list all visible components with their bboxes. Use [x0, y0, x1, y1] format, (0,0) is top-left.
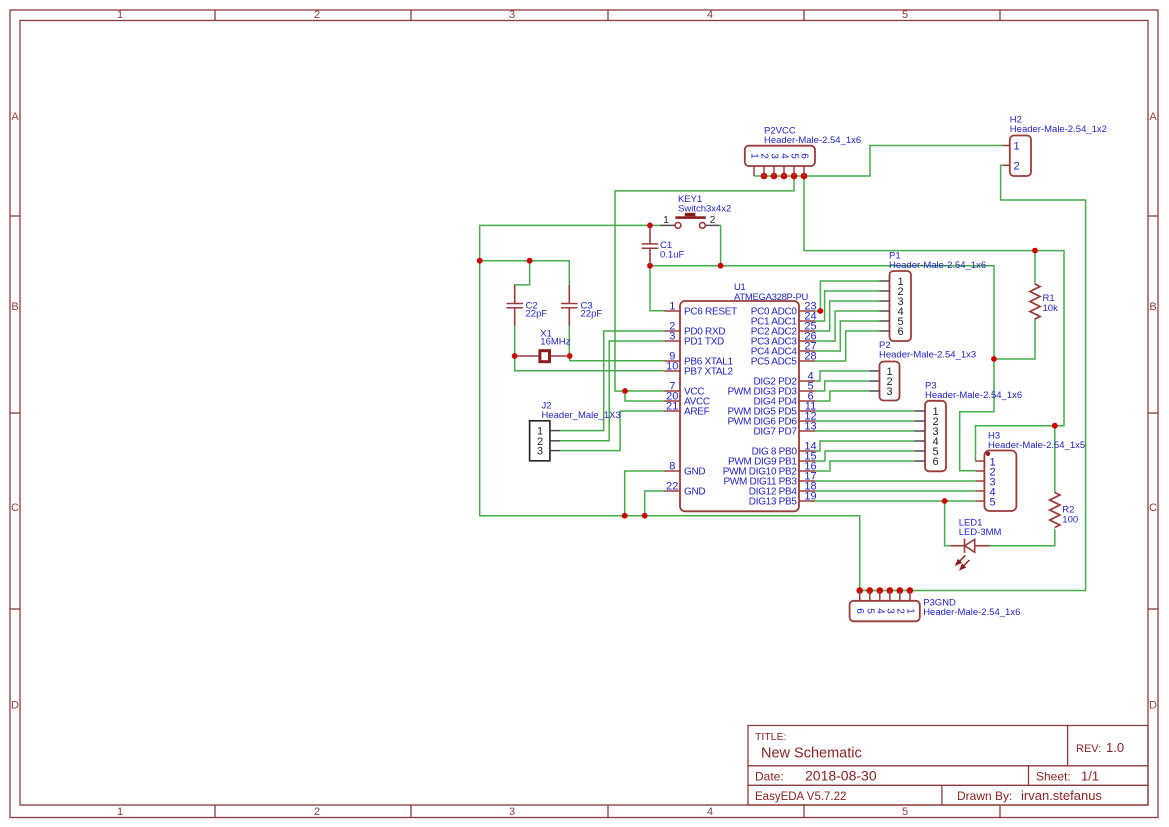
- svg-text:8: 8: [669, 460, 675, 472]
- svg-text:New Schematic: New Schematic: [761, 746, 862, 762]
- svg-text:13: 13: [804, 420, 816, 432]
- svg-text:PC5 ADC5: PC5 ADC5: [751, 357, 798, 368]
- svg-text:LED-3MM: LED-3MM: [959, 527, 1002, 538]
- svg-text:B: B: [1149, 301, 1156, 313]
- svg-text:EasyEDA V5.7.22: EasyEDA V5.7.22: [755, 791, 846, 803]
- svg-text:4: 4: [707, 9, 713, 21]
- svg-text:3: 3: [886, 386, 892, 398]
- svg-text:C: C: [1149, 502, 1157, 514]
- svg-text:2: 2: [759, 153, 770, 159]
- svg-text:5: 5: [902, 9, 908, 21]
- svg-text:AREF: AREF: [684, 407, 710, 418]
- svg-text:A: A: [11, 111, 19, 123]
- svg-text:Date:: Date:: [755, 770, 784, 784]
- svg-text:Header-Male-2.54_1x6: Header-Male-2.54_1x6: [889, 260, 986, 271]
- svg-text:Header-Male-2.54_1x6: Header-Male-2.54_1x6: [925, 390, 1022, 401]
- svg-text:Header-Male-2.54_1x6: Header-Male-2.54_1x6: [764, 135, 861, 146]
- svg-text:1: 1: [117, 9, 123, 21]
- svg-text:Switch3x4x2: Switch3x4x2: [678, 204, 731, 215]
- svg-text:6: 6: [932, 456, 938, 468]
- svg-text:GND: GND: [684, 467, 705, 478]
- svg-text:6: 6: [854, 608, 865, 614]
- svg-text:Drawn By:: Drawn By:: [957, 789, 1012, 803]
- svg-text:D: D: [11, 700, 19, 712]
- svg-text:irvan.stefanus: irvan.stefanus: [1021, 788, 1102, 803]
- svg-text:6: 6: [799, 153, 810, 159]
- svg-text:1: 1: [904, 608, 915, 614]
- svg-text:3: 3: [669, 330, 675, 342]
- svg-text:Header-Male-2.54_1x5: Header-Male-2.54_1x5: [988, 440, 1085, 451]
- svg-text:5: 5: [789, 153, 800, 159]
- svg-text:1: 1: [669, 300, 675, 312]
- svg-text:6: 6: [897, 326, 903, 338]
- svg-text:TITLE:: TITLE:: [755, 731, 787, 743]
- svg-text:10k: 10k: [1043, 303, 1059, 314]
- svg-text:3: 3: [509, 9, 515, 21]
- svg-text:3: 3: [509, 806, 515, 818]
- svg-text:2: 2: [1014, 160, 1020, 172]
- svg-text:21: 21: [666, 400, 678, 412]
- svg-text:DIG13 PB5: DIG13 PB5: [749, 497, 798, 508]
- svg-text:REV:: REV:: [1076, 743, 1101, 755]
- svg-text:22pF: 22pF: [581, 308, 603, 319]
- svg-text:1: 1: [117, 806, 123, 818]
- svg-text:Header_Male_1X3: Header_Male_1X3: [542, 410, 621, 421]
- svg-text:3: 3: [769, 153, 780, 159]
- svg-text:B: B: [11, 301, 18, 313]
- svg-text:5: 5: [864, 608, 875, 614]
- svg-text:4: 4: [874, 608, 885, 614]
- svg-text:2: 2: [314, 806, 320, 818]
- svg-text:3: 3: [537, 446, 543, 458]
- svg-text:2: 2: [314, 9, 320, 21]
- svg-text:GND: GND: [684, 487, 705, 498]
- svg-text:PC6 RESET: PC6 RESET: [684, 307, 737, 318]
- svg-text:0.1uF: 0.1uF: [660, 250, 684, 261]
- svg-text:19: 19: [804, 490, 816, 502]
- svg-text:100: 100: [1062, 515, 1078, 526]
- svg-text:4: 4: [707, 806, 713, 818]
- svg-text:1.0: 1.0: [1106, 740, 1124, 755]
- svg-text:PD1 TXD: PD1 TXD: [684, 337, 724, 348]
- svg-text:4: 4: [779, 153, 790, 159]
- svg-text:2: 2: [894, 608, 905, 614]
- svg-text:3: 3: [884, 608, 895, 614]
- svg-text:16MHz: 16MHz: [540, 337, 570, 348]
- svg-text:Header-Male-2.54_1x3: Header-Male-2.54_1x3: [879, 350, 976, 361]
- svg-text:D: D: [1149, 700, 1157, 712]
- svg-text:2018-08-30: 2018-08-30: [805, 768, 877, 784]
- svg-text:22pF: 22pF: [526, 308, 548, 319]
- svg-text:1: 1: [1014, 141, 1020, 153]
- svg-text:Sheet:: Sheet:: [1036, 770, 1071, 784]
- svg-text:10: 10: [666, 360, 678, 372]
- svg-text:PB7 XTAL2: PB7 XTAL2: [684, 367, 734, 378]
- svg-text:22: 22: [666, 480, 678, 492]
- svg-text:Header-Male-2.54_1x6: Header-Male-2.54_1x6: [923, 607, 1020, 618]
- svg-text:1/1: 1/1: [1081, 769, 1099, 784]
- svg-text:5: 5: [990, 497, 996, 509]
- svg-text:28: 28: [804, 350, 816, 362]
- svg-text:C: C: [11, 502, 19, 514]
- svg-text:Header-Male-2.54_1x2: Header-Male-2.54_1x2: [1010, 124, 1107, 135]
- svg-text:ATMEGA328P-PU: ATMEGA328P-PU: [734, 292, 808, 303]
- svg-text:A: A: [1149, 111, 1157, 123]
- svg-text:5: 5: [902, 806, 908, 818]
- svg-text:1: 1: [663, 215, 669, 226]
- svg-text:1: 1: [749, 153, 760, 159]
- svg-text:DIG7 PD7: DIG7 PD7: [754, 427, 798, 438]
- svg-text:2: 2: [710, 215, 716, 226]
